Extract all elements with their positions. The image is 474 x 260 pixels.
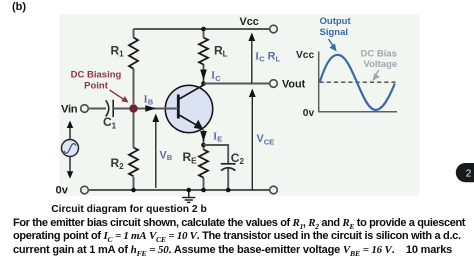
resistor R1 (129, 38, 138, 69)
arrow IB on base wire (145, 105, 156, 112)
arrow IC on collector wire (200, 70, 207, 81)
terminal 0v (81, 186, 89, 194)
terminal Vin (81, 105, 89, 113)
caption (0, 204, 258, 215)
panel background (60, 14, 420, 196)
junction R2 bottom (131, 188, 136, 193)
svg-text:Output: Output (320, 16, 352, 27)
transistor base bar (177, 95, 180, 119)
transistor collector lead (178, 85, 203, 100)
arrow IE on emitter wire (200, 131, 207, 142)
resistor R2 (129, 148, 138, 177)
source AC input (62, 121, 79, 179)
label (b) (12, 1, 26, 13)
wire RL branch (203, 29, 205, 86)
terminal bottom right (270, 186, 278, 194)
svg-text:Signal: Signal (320, 27, 349, 38)
body text line 3 (13, 244, 452, 260)
wire C2 branch (204, 145, 229, 190)
arrow output pointer (329, 39, 334, 47)
wire top rail Vcc (134, 28, 271, 30)
svg-text:Vcc: Vcc (296, 50, 314, 61)
arrow DC biasing pointer (110, 90, 125, 100)
arrow measurement VB (155, 120, 157, 188)
page badge 2 (456, 163, 474, 182)
ground (182, 190, 195, 202)
body text line 2 (13, 230, 461, 246)
resistor RL (199, 38, 208, 65)
svg-text:Vin: Vin (61, 103, 78, 115)
svg-text:0v: 0v (56, 185, 69, 197)
svg-text:DC Bias: DC Bias (361, 49, 397, 60)
junction RL top (201, 27, 206, 32)
svg-text:Vcc: Vcc (240, 16, 259, 28)
terminal Vcc (270, 25, 278, 33)
wire Vin to C1 (88, 108, 106, 110)
junction RE bottom (201, 188, 206, 193)
wire emitter branch (203, 130, 205, 191)
svg-text:2: 2 (466, 169, 472, 180)
wire R1 branch (133, 29, 135, 104)
body text line 1 (13, 217, 465, 233)
junction C2 bottom (226, 188, 231, 193)
wire bottom rail (88, 189, 270, 191)
arrow measurement IC RL (251, 39, 253, 84)
capacitor C2 (221, 163, 236, 165)
svg-text:Point: Point (84, 81, 109, 92)
svg-text:0v: 0v (303, 108, 315, 119)
node DC biasing point (129, 104, 137, 112)
junction emitter C2 branch (201, 143, 206, 148)
transistor emitter lead (178, 115, 201, 128)
svg-text:Vout: Vout (282, 78, 306, 90)
junction collector node (201, 81, 206, 86)
graph sine output waveform (320, 55, 395, 110)
resistor RE (199, 150, 208, 178)
transistor emitter arrowhead (194, 120, 204, 130)
junction ground (187, 188, 192, 193)
wire C1 to base (113, 108, 178, 110)
transistor Q1 body (165, 85, 212, 132)
capacitor C1 (106, 100, 109, 116)
svg-text:DC Biasing: DC Biasing (71, 70, 122, 81)
wire R2 branch (133, 113, 135, 191)
wire Vout line (204, 83, 271, 85)
terminal Vout (270, 80, 278, 88)
arrow dc bias pointer (375, 70, 379, 76)
graph axes (319, 52, 397, 112)
arrow measurement VCE (251, 95, 253, 190)
svg-text:Voltage: Voltage (364, 59, 398, 70)
graph dashed dc level (320, 81, 396, 83)
